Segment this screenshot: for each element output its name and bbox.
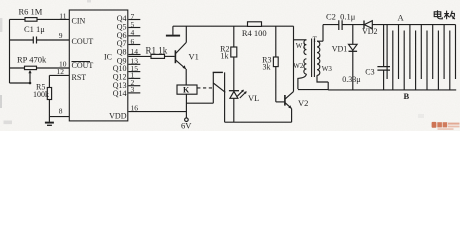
inductor W3 (317, 41, 320, 75)
transistor V2 (284, 95, 286, 106)
wire B rail (298, 89, 456, 91)
wire R5 top lead (48, 75, 50, 87)
wire pin14 to R1 (128, 55, 151, 57)
wire RST row (49, 74, 69, 76)
node wiper junction (29, 82, 32, 85)
transistor V1 (174, 50, 176, 63)
wire row1 to R6 (10, 18, 70, 20)
diode VD2 (363, 21, 365, 29)
wire W3 top riser (317, 25, 339, 42)
wire left bus (9, 19, 11, 83)
wire K to contact pivot (186, 102, 213, 104)
pin 3 stub (128, 92, 140, 94)
scan smudges (0, 0, 424, 124)
ground rail left (172, 26, 174, 35)
wire RP wiper (29, 71, 31, 83)
wire row2 to C1 (10, 39, 70, 41)
wire R5 bottom lead (48, 100, 50, 117)
inductor W1 (304, 40, 306, 55)
watermark logo (432, 122, 460, 130)
wire R3 branch (275, 26, 277, 102)
resistor R3 (273, 57, 278, 67)
wire A rail (372, 24, 455, 26)
wire R1 to V1 base (165, 55, 175, 57)
wire top rail (173, 25, 294, 27)
pin 2 stub (128, 85, 140, 87)
capacitor C3 (383, 25, 385, 90)
pin 5 stub (128, 27, 140, 29)
pin 7 stub (128, 19, 140, 21)
transformer T core (312, 39, 315, 78)
wire R3 to V2 base (276, 101, 285, 103)
pin 6 stub (128, 44, 140, 46)
wire pin8 row (49, 116, 69, 118)
pin 13 stub (128, 63, 140, 65)
wire K bottom (185, 94, 187, 118)
op-amp U1 IC box CD4060 (69, 10, 128, 121)
wire C2 to VD2 (342, 24, 364, 26)
wire W2 bottom hook (298, 74, 307, 89)
capacitor C1 (33, 37, 36, 44)
wire wiper to bus (10, 82, 31, 84)
relay K coil (177, 85, 197, 94)
diode VD1 (352, 25, 354, 90)
resistor R2 (231, 47, 237, 57)
electrode comb top teeth (387, 25, 455, 79)
wire V1 emitter to K (185, 69, 187, 85)
resistor R6 (25, 18, 37, 22)
resistor R4 (248, 22, 262, 27)
LED VL (229, 90, 239, 92)
potentiometer RP (25, 66, 37, 69)
resistor R5 (47, 88, 51, 100)
wire 6V supply row (128, 111, 186, 113)
wire rail to W1 (293, 26, 295, 91)
wire R2 branch (233, 26, 235, 90)
pin 15 stub (128, 71, 140, 73)
electrode comb bottom teeth (393, 31, 450, 91)
node 6V terminal (185, 118, 189, 122)
wire bottom rail (225, 121, 292, 123)
inductor W2 (304, 59, 307, 74)
relay contact K (213, 71, 223, 73)
capacitor C2 (339, 20, 342, 30)
pin 1 stub (128, 77, 140, 79)
pin 14 stub (128, 54, 140, 56)
dashed link K (197, 87, 212, 89)
pin 4 stub (128, 35, 140, 37)
ground (48, 117, 50, 122)
resistor R1 (151, 54, 165, 58)
wire W3 bottom to B rail (317, 75, 328, 89)
label electrode chinese (434, 10, 455, 19)
wire row3 to RP (10, 67, 70, 69)
